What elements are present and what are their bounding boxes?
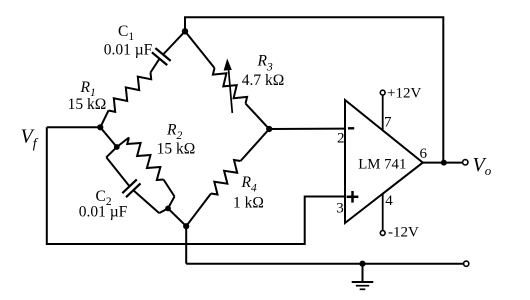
resistor R3 (variable) — [185, 31, 215, 68]
pin 7 wire — [382, 95, 384, 131]
svg-text:3: 3 — [336, 200, 344, 216]
capacitor C1 — [151, 59, 160, 73]
R3 wiper arrow — [229, 70, 233, 113]
svg-text:15 kΩ: 15 kΩ — [68, 96, 107, 113]
svg-text:+12V: +12V — [387, 85, 421, 101]
output wire pin 6 — [423, 162, 463, 164]
svg-text:-12V: -12V — [388, 225, 419, 241]
resistor R4 — [241, 129, 270, 161]
svg-text:7: 7 — [384, 115, 392, 131]
svg-text:15 kΩ: 15 kΩ — [157, 141, 196, 158]
node T bridge top junction — [182, 28, 188, 34]
ground — [362, 264, 364, 282]
ground junction node — [359, 261, 365, 267]
output node junction — [441, 160, 447, 166]
svg-text:0.01 µF: 0.01 µF — [79, 204, 128, 221]
node R bridge right junction — [266, 126, 272, 132]
wire loop to bridge bottom node — [168, 208, 186, 226]
svg-text:4: 4 — [385, 193, 393, 209]
node loop top junction — [114, 144, 120, 150]
op-amp non-inverting input plus sign — [347, 196, 359, 199]
node B bridge bottom junction — [183, 223, 189, 229]
wire Vf rail down along left and to op-amp pin 3 — [47, 127, 345, 244]
op-amp U1 LM 741 — [345, 100, 423, 223]
wire node L to parallel loop — [100, 127, 117, 147]
capacitor C2 — [106, 147, 117, 157]
pin 4 wire — [382, 194, 384, 231]
node L bridge left junction — [97, 124, 103, 130]
-12V terminal — [380, 231, 385, 236]
resistor R1 — [100, 111, 108, 128]
wire top feedback from bridge top to output node — [185, 17, 443, 162]
terminal Vo — [463, 160, 468, 165]
+12V terminal — [380, 90, 385, 95]
svg-text:LM 741: LM 741 — [358, 157, 406, 173]
svg-text:1 kΩ: 1 kΩ — [233, 195, 264, 212]
wire node R to op-amp pin 2 — [269, 128, 344, 130]
svg-text:0.01 µF: 0.01 µF — [104, 42, 153, 59]
wire Vf terminal stub to node L — [47, 126, 101, 128]
svg-text:6: 6 — [420, 146, 428, 162]
terminal bottom right — [464, 261, 469, 266]
svg-text:2: 2 — [337, 131, 345, 147]
resistor R2 — [117, 138, 129, 148]
op-amp inverting input minus sign — [348, 127, 354, 129]
wire bridge bottom node down to ground rail — [185, 226, 187, 264]
wire ground rail — [186, 263, 463, 265]
svg-text:4.7 kΩ: 4.7 kΩ — [242, 72, 285, 89]
node loop bottom junction — [165, 206, 171, 212]
